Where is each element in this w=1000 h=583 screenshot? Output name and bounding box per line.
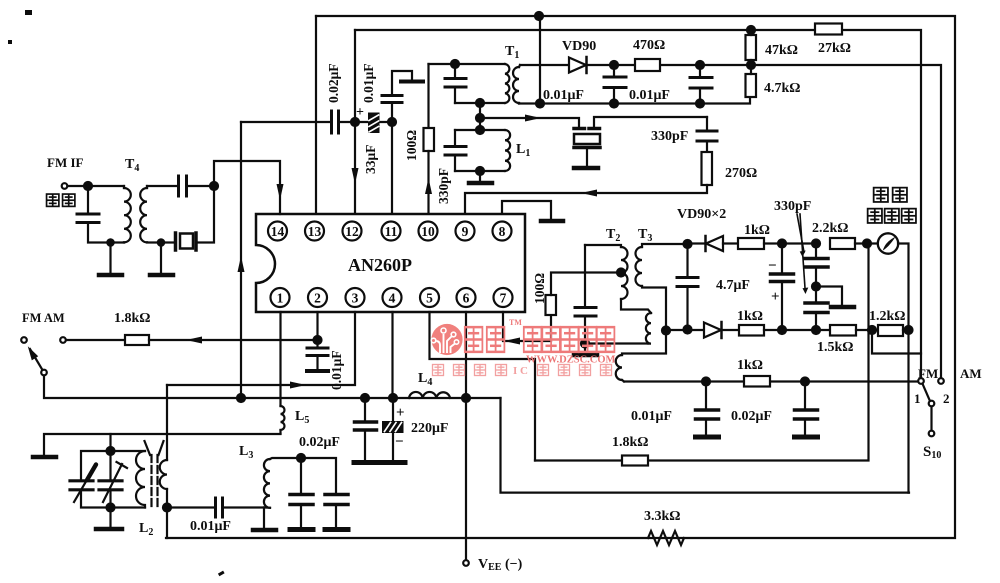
svg-text:47kΩ: 47kΩ [765, 43, 798, 58]
node 4.7uF top [778, 240, 786, 248]
wire L2 secondary riser [166, 385, 168, 460]
transformer T1 primary tank [429, 64, 510, 103]
core L2 flares [145, 441, 164, 455]
svg-text:VD90×2: VD90×2 [677, 207, 726, 222]
capacitor 0.02uF top plates [332, 111, 339, 133]
node gang bottom [107, 504, 115, 512]
svg-text:0.01μF: 0.01μF [631, 409, 672, 424]
svg-text:4: 4 [389, 290, 396, 305]
transformer L2 primary [136, 451, 145, 508]
wire pin3 line [167, 312, 355, 385]
svg-text:0.02μF: 0.02μF [299, 435, 340, 450]
label tiaoxie (tuning) [874, 188, 907, 202]
transformer T2 primary [585, 245, 651, 313]
svg-text:7: 7 [500, 290, 507, 305]
wire x241 feedback vertical [240, 122, 242, 398]
node det line 0.01 [702, 378, 710, 386]
wire 4.7uF to 330pF2 [782, 329, 816, 331]
svg-text:10: 10 [421, 224, 435, 239]
svg-text:1kΩ: 1kΩ [737, 358, 763, 373]
svg-text:220μF: 220μF [411, 421, 449, 436]
svg-text:0.01μF: 0.01μF [543, 88, 584, 103]
svg-text:2: 2 [943, 391, 950, 406]
node diode cathode [610, 61, 618, 69]
node pin4 rail [389, 394, 397, 402]
ground left rail [33, 434, 281, 457]
wire gang top stem [109, 434, 111, 451]
node T2 center tap [617, 269, 625, 277]
svg-text:33μF: 33μF [363, 145, 378, 174]
node discriminator feed [476, 114, 484, 122]
resistor 1k det [744, 376, 770, 387]
wire discriminator feed line [480, 118, 579, 127]
ground gang [96, 508, 122, 530]
capacitor 0.02uF rail [354, 398, 379, 463]
node between 330pF caps [812, 283, 820, 291]
inductor L4 [409, 392, 450, 398]
resistor 2.2k [830, 238, 878, 249]
tuning gang frame [81, 451, 145, 479]
arrow left on pin9 line [581, 190, 597, 197]
node pin6 rail [462, 394, 470, 402]
svg-text:−: − [395, 434, 404, 450]
capacitor L3 tank B [301, 458, 348, 530]
wire rail to bottom right [501, 398, 910, 493]
capacitor L1 tank [445, 130, 466, 171]
capacitor T4 coupling [179, 176, 187, 196]
svg-text:+: + [356, 105, 364, 120]
node T1 sec bottom [536, 100, 544, 108]
scan speck bottom [218, 571, 225, 577]
resistor 1.8k (FM AM) [60, 335, 317, 345]
svg-text:2.2kΩ: 2.2kΩ [812, 221, 849, 236]
svg-text:1kΩ: 1kΩ [744, 223, 770, 238]
switch S10 pole [923, 385, 935, 437]
label zhishiqi (indicator) [868, 209, 916, 223]
capacitor 0.02uF det [795, 382, 818, 438]
node T4 output [210, 182, 218, 190]
node 330pF1 top [812, 240, 820, 248]
ground T2 [574, 340, 597, 356]
node B-47k [747, 26, 755, 34]
resistor 47k [746, 30, 757, 69]
diode VD90 lower [704, 322, 739, 338]
capacitor 0.01uF L2-L3 [167, 498, 264, 517]
svg-text:TM: TM [509, 318, 522, 327]
wire border B to FM switch [355, 30, 921, 378]
svg-text:1: 1 [277, 290, 284, 305]
svg-text:0.01μF: 0.01μF [190, 519, 231, 534]
svg-text:1.8kΩ: 1.8kΩ [114, 311, 151, 326]
ground pin8 bar [541, 219, 563, 224]
svg-text:4.7μF: 4.7μF [716, 278, 750, 293]
wire L5 bottom [279, 430, 281, 434]
node T1 tank bottom [476, 99, 484, 107]
node det line 0.02 [801, 378, 809, 386]
wire T3 mid winding return [585, 342, 648, 344]
wire 1.8k line bottom [535, 244, 869, 461]
wire T1 to L1 vertical [479, 103, 481, 130]
wire pin14 feed [214, 161, 280, 214]
svg-text:11: 11 [385, 224, 398, 239]
capacitor T3 tank [677, 244, 698, 334]
arrow right on feed line [525, 115, 541, 122]
svg-text:FM IF: FM IF [47, 155, 84, 170]
svg-text:8: 8 [499, 224, 506, 239]
svg-text:0.01μF: 0.01μF [361, 63, 376, 103]
wire VEE [463, 398, 469, 566]
switch FM AM [21, 337, 241, 398]
ground T4 secondary [150, 239, 173, 275]
arrow into pin14 [277, 184, 284, 200]
wire y122 segment3 [378, 121, 392, 123]
capacitor 220uF electrolytic [382, 398, 405, 463]
resistor 1.5k [816, 325, 878, 336]
capacitor 0.01uF top (x392) [382, 71, 423, 122]
capacitor 330pF (discriminator) [697, 117, 717, 152]
variable capacitor C1a [70, 465, 96, 503]
wire pin4 down [391, 312, 393, 398]
node pin2 [314, 336, 322, 344]
wire pin6 down [465, 312, 467, 398]
resistor 100ohm (T2) [546, 273, 622, 316]
ground T4 primary [99, 239, 122, 275]
wire diode output line C to AM switch [520, 65, 941, 378]
node gang top [107, 447, 115, 455]
capacitor L3 tank A [290, 458, 313, 530]
wire diode line upper [688, 242, 706, 244]
arrow up on x241 [238, 256, 245, 272]
ground L3 [253, 508, 276, 531]
arrow into pin12 [352, 168, 359, 184]
wire L2 sec to bottom rail [166, 489, 168, 538]
capacitor 330pF first [805, 244, 828, 287]
svg-text:FM AM: FM AM [22, 311, 65, 325]
node A-540 [535, 12, 543, 20]
inductor L1 tank [455, 126, 510, 171]
diode VD90 upper [706, 236, 739, 251]
svg-text:100Ω: 100Ω [404, 130, 419, 161]
capacitor 0.01uF det [696, 382, 719, 438]
svg-text:1.5kΩ: 1.5kΩ [817, 340, 854, 355]
svg-text:12: 12 [345, 224, 359, 239]
wire pin1 to L5 [279, 312, 281, 406]
watermark logo [431, 324, 462, 355]
capacitor 0.01uF pin2 [307, 340, 328, 371]
node L3 tank [297, 454, 305, 462]
svg-text:27kΩ: 27kΩ [818, 41, 851, 56]
arrow right on pin3 line [290, 382, 306, 389]
pin circles bottom row [271, 288, 513, 307]
transformer L2 secondary [160, 460, 167, 489]
wire x540 from border A [539, 16, 541, 104]
resistor 4.7k [746, 65, 757, 97]
svg-text:470Ω: 470Ω [633, 38, 665, 53]
capacitor 0.01uF (second) [690, 65, 712, 108]
svg-text:−: − [768, 258, 777, 274]
svg-text:+: + [771, 289, 780, 305]
node 1.2k right [905, 326, 913, 334]
capacitor 4.7uF electrolytic [771, 244, 794, 335]
scan speck top-left [25, 10, 32, 15]
svg-text:1.2kΩ: 1.2kΩ [869, 309, 906, 324]
label shuru (input) [47, 194, 75, 206]
svg-text:1.8kΩ: 1.8kΩ [612, 435, 649, 450]
arrow left into pin7 [504, 338, 520, 345]
tuning meter [878, 233, 898, 253]
wire cap to node214 [188, 185, 214, 187]
svg-text:100Ω: 100Ω [532, 273, 547, 304]
svg-text:1: 1 [914, 391, 921, 406]
switch S10 FM contact [918, 378, 924, 384]
resistor 1.8k (bottom) [622, 456, 648, 466]
svg-text:330pF: 330pF [774, 199, 811, 214]
input terminal FM IF [62, 182, 92, 190]
resistor 470ohm [635, 59, 660, 71]
svg-text:0.01μF: 0.01μF [329, 350, 344, 390]
wire meter to down [898, 244, 909, 493]
svg-text:VD90: VD90 [562, 39, 596, 54]
watermark slogan row [433, 365, 507, 376]
svg-text:I C: I C [513, 365, 528, 377]
svg-text:330pF: 330pF [436, 168, 451, 204]
pin numbers [271, 224, 507, 305]
resistor 1k lower [739, 325, 782, 336]
core L2 [152, 455, 158, 510]
variable capacitor C1b trimmer [99, 451, 127, 508]
pin circles top row [268, 222, 512, 241]
svg-text:270Ω: 270Ω [725, 166, 757, 181]
resistor 100ohm (pin10) [424, 64, 435, 214]
wire diode line lower [666, 329, 704, 331]
ground bracket mid [816, 287, 854, 308]
node 470 right [696, 61, 704, 69]
svg-text:9: 9 [462, 224, 469, 239]
svg-text:2: 2 [314, 290, 321, 305]
inductor L5 [281, 406, 285, 430]
inductor L3 [264, 458, 301, 508]
node cap junction x392 [388, 118, 396, 126]
node 2.2k right [863, 240, 871, 248]
svg-text:5: 5 [426, 290, 433, 305]
resistor 270ohm [465, 152, 712, 214]
wire y122 segment2 [339, 121, 368, 123]
transformer T3 mid winding [646, 313, 651, 344]
node pin12 cap line [351, 118, 359, 126]
diode VD90 [569, 57, 587, 73]
transformer T4 primary [88, 186, 131, 243]
node main rail FMAM [237, 394, 245, 402]
svg-text:4.7kΩ: 4.7kΩ [764, 81, 801, 96]
resistor 1.2k [878, 325, 909, 336]
switch S10 AM contact [938, 378, 944, 384]
watermark big characters [465, 327, 615, 352]
svg-text:1kΩ: 1kΩ [737, 309, 763, 324]
wire pin7 down [503, 312, 551, 341]
wire T1 secondary bottom line y103.5 [519, 97, 750, 104]
arrow up into 100ohm from pin10 [425, 178, 432, 194]
scan speck left [8, 40, 12, 44]
IC AN260P body [256, 214, 525, 312]
resistor 1k upper [738, 238, 816, 249]
transformer T3 bottom winding [616, 355, 624, 382]
svg-text:6: 6 [463, 290, 470, 305]
svg-text:3: 3 [352, 290, 359, 305]
wire coupling line y122 [241, 121, 331, 123]
svg-text:AN260P: AN260P [348, 255, 412, 275]
wire pin5 jog [430, 312, 536, 461]
node L2 secondary bottom [163, 504, 171, 512]
capacitor 0.01uF (first) [604, 65, 626, 108]
wire pin2 down [316, 312, 318, 340]
node 1.2k left [868, 326, 876, 334]
transformer T4 secondary [140, 186, 177, 243]
wire top border A [166, 16, 955, 538]
wire 1.2k bypass bracket [872, 330, 921, 354]
node T3 tank top [684, 240, 692, 248]
resistor 3.3k zigzag [648, 531, 684, 545]
svg-text:0.02μF: 0.02μF [326, 63, 341, 103]
ground pin8 [502, 201, 551, 219]
node T3 tap to diode line [662, 327, 670, 335]
capacitor T1 tank [445, 60, 466, 103]
svg-text:3.3kΩ: 3.3kΩ [644, 509, 681, 524]
arrow left to 1.8k [186, 337, 202, 344]
ground L1 [469, 167, 492, 183]
wire main V- rail [241, 397, 501, 399]
capacitor 33uF electrolytic body [368, 113, 380, 134]
transformer T3 top winding [622, 244, 688, 355]
svg-text:330pF: 330pF [651, 129, 688, 144]
svg-text:+: + [396, 405, 405, 421]
wire AM det line y381.5 [624, 380, 918, 382]
leader lines 330pF [797, 214, 808, 294]
wire pin11 vertical [391, 122, 393, 214]
tuning gang frame lower left [81, 491, 145, 508]
svg-text:14: 14 [271, 224, 285, 239]
capacitor 330pF second [805, 287, 828, 335]
svg-text:AM: AM [960, 366, 982, 381]
wire pin12 vertical [354, 30, 356, 214]
ceramic discriminator [574, 117, 707, 168]
node 0.02uF rail [361, 394, 369, 402]
transformer T1 secondary [513, 65, 520, 104]
svg-text:FM: FM [918, 366, 938, 381]
svg-text:13: 13 [308, 224, 322, 239]
wire pin13 vertical [315, 16, 317, 214]
capacitor T2 tank [575, 245, 596, 344]
ceramic filter T4 [176, 186, 215, 250]
svg-text:0.01μF: 0.01μF [629, 88, 670, 103]
svg-text:0.02μF: 0.02μF [731, 409, 772, 424]
capacitor input shunt [77, 186, 124, 243]
resistor 27k [815, 24, 842, 35]
